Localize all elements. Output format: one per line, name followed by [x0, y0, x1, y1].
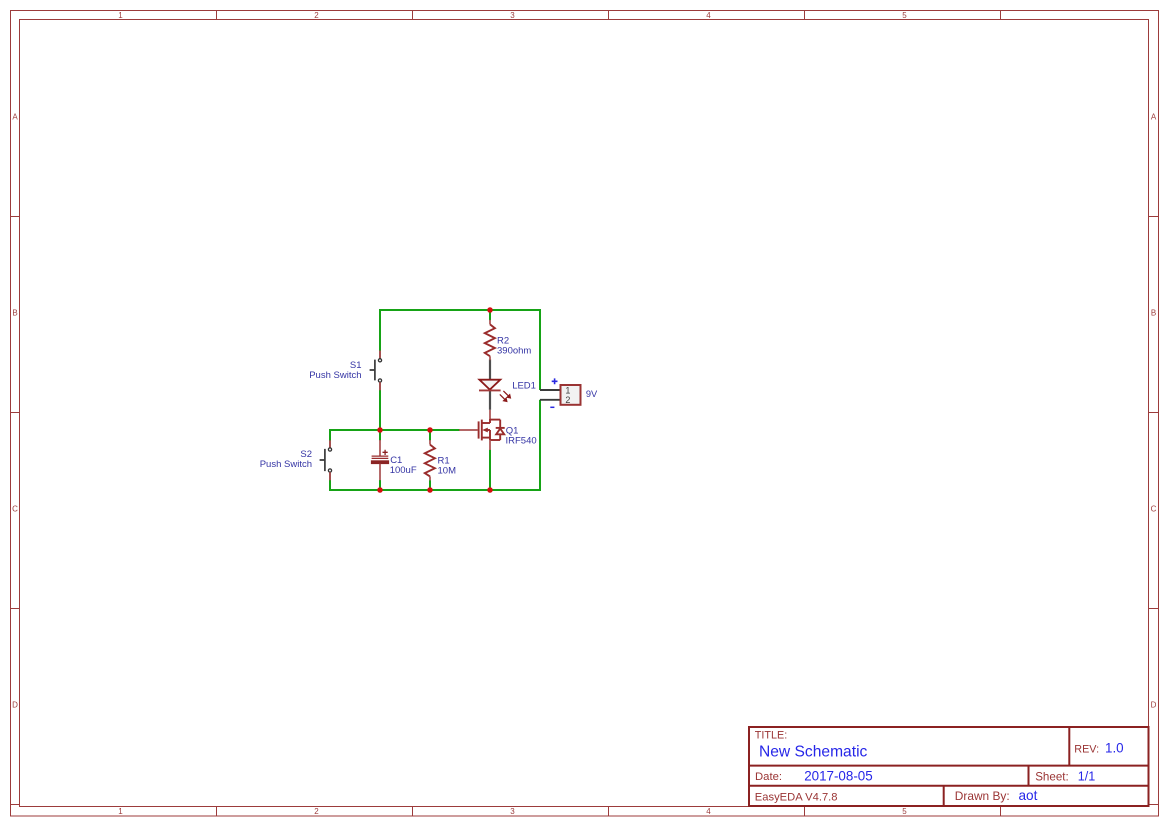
- top plate (outlined): [372, 456, 389, 458]
- svg-text:Push Switch: Push Switch: [309, 370, 361, 381]
- resistor R1: [425, 440, 435, 480]
- label S2: [260, 449, 312, 470]
- plus sign: [383, 450, 388, 455]
- svg-text:5: 5: [902, 807, 907, 816]
- title block REV divider: [1068, 727, 1070, 766]
- wire left vertical to S1 top: [379, 309, 381, 351]
- S1 bottom pin: [379, 382, 381, 390]
- wire bottom rail: [330, 489, 541, 491]
- bottom pin: [379, 464, 381, 481]
- svg-text:A: A: [1151, 113, 1157, 122]
- label Q1: [506, 425, 537, 446]
- svg-text:5: 5: [902, 11, 907, 20]
- svg-text:TITLE:: TITLE:: [755, 730, 787, 742]
- wire Q1 source to bottom rail: [489, 450, 491, 490]
- body diode cathode bar: [496, 427, 505, 429]
- bottom plate (filled): [371, 461, 389, 464]
- svg-text:C: C: [1151, 505, 1157, 514]
- wire R2 top stub: [489, 310, 491, 320]
- svg-text:2: 2: [314, 11, 319, 20]
- svg-text:D: D: [12, 701, 18, 710]
- svg-text:New Schematic: New Schematic: [759, 743, 868, 760]
- source vertical: [489, 430, 491, 440]
- svg-text:D: D: [1151, 701, 1157, 710]
- title block outline: [749, 727, 1149, 806]
- svg-text:3: 3: [510, 807, 515, 816]
- svg-text:9V: 9V: [586, 389, 598, 399]
- S1 bottom contact: [378, 379, 381, 382]
- top pin: [379, 440, 381, 456]
- label S1: [309, 360, 361, 381]
- wire S1 bottom to gate rail: [379, 390, 381, 430]
- channel bar: [481, 420, 483, 441]
- title block Sheet divider: [1028, 766, 1030, 786]
- svg-text:100uF: 100uF: [390, 465, 417, 476]
- source pin: [489, 440, 491, 450]
- switch S2: [320, 440, 332, 480]
- S1 top contact: [378, 359, 381, 362]
- drain pin: [489, 410, 491, 420]
- body diode vertical bottom: [499, 434, 501, 440]
- drain-diode top link: [490, 419, 500, 421]
- title block row divider 2: [749, 785, 1149, 787]
- battery connector P1 9V: [540, 378, 581, 407]
- battery minus mark: [550, 406, 554, 408]
- top stub: [482, 422, 490, 424]
- svg-text:B: B: [12, 309, 17, 318]
- svg-text:Date:: Date:: [755, 771, 782, 783]
- junction node bottom rail / Q1 source: [487, 487, 493, 493]
- wire right vertical to battery pin1: [539, 309, 541, 390]
- title block row divider 1: [749, 765, 1149, 767]
- svg-text:2: 2: [565, 395, 570, 405]
- title block DrawnBy divider: [943, 786, 945, 806]
- wire C1 bottom stub: [379, 480, 381, 490]
- svg-text:EasyEDA V4.7.8: EasyEDA V4.7.8: [755, 792, 838, 804]
- junction node gate rail / R1: [427, 427, 433, 433]
- wire gate rail: [330, 429, 460, 431]
- svg-text:1: 1: [118, 807, 123, 816]
- svg-text:4: 4: [706, 807, 711, 816]
- bottom stub: [482, 437, 490, 439]
- led cathode bar: [479, 389, 501, 391]
- S2 bottom pin: [329, 472, 331, 480]
- svg-text:1.0: 1.0: [1105, 741, 1124, 756]
- S2 top contact: [328, 448, 331, 451]
- label R1: [438, 455, 457, 476]
- battery body: [561, 385, 581, 405]
- label C1: [390, 455, 417, 476]
- gate bar: [478, 421, 480, 438]
- wire LED to Q1 drain (gray): [489, 391, 491, 410]
- svg-text:1: 1: [118, 11, 123, 20]
- svg-text:Drawn By:: Drawn By:: [955, 789, 1010, 803]
- battery pin2 lead: [540, 399, 560, 401]
- junction node bottom rail / C1: [377, 487, 383, 493]
- wire R1 bottom stub: [429, 480, 431, 490]
- wire battery pin2 down right side: [539, 400, 541, 490]
- wire S2 top stub: [329, 429, 331, 441]
- wire S2 bottom stub: [329, 480, 331, 491]
- battery plus mark: [552, 378, 558, 384]
- wire R1 top stub: [429, 430, 431, 441]
- svg-text:aot: aot: [1019, 788, 1038, 803]
- transistor Q1 (IRF540 N-MOSFET): [459, 410, 505, 450]
- svg-text:C: C: [12, 505, 18, 514]
- battery pin1 lead: [540, 389, 560, 391]
- gate pin: [459, 429, 478, 431]
- led emission arrows: [500, 391, 511, 402]
- junction node gate rail / S1-C1: [377, 427, 383, 433]
- svg-text:LED1: LED1: [512, 381, 536, 392]
- capacitor C1: [371, 440, 389, 480]
- body diode vertical top: [499, 420, 501, 428]
- svg-text:IRF540: IRF540: [506, 435, 537, 446]
- S2 lever: [320, 449, 325, 471]
- Q1 channel arrow: [482, 428, 488, 433]
- switch S1: [370, 351, 382, 391]
- svg-text:B: B: [1151, 309, 1156, 318]
- junction node top rail / R2: [487, 307, 493, 313]
- S1 lever: [370, 360, 375, 381]
- LED1: [479, 380, 510, 402]
- middle stub / arrow line: [485, 429, 490, 431]
- source-diode bottom link: [490, 439, 500, 441]
- svg-text:Push Switch: Push Switch: [260, 459, 312, 470]
- junction node bottom rail / R1: [427, 487, 433, 493]
- resistor R2: [485, 320, 495, 360]
- wire top rail: [380, 309, 540, 311]
- label R2: [497, 335, 531, 356]
- svg-text:Sheet:: Sheet:: [1035, 771, 1069, 784]
- svg-text:10M: 10M: [438, 465, 457, 476]
- svg-text:2017-08-05: 2017-08-05: [804, 769, 873, 784]
- svg-text:1: 1: [565, 386, 570, 396]
- wire R2 to LED (gray): [489, 359, 491, 379]
- svg-text:REV:: REV:: [1074, 743, 1099, 755]
- body diode triangle: [496, 429, 504, 435]
- svg-text:4: 4: [706, 11, 711, 20]
- svg-text:A: A: [12, 113, 18, 122]
- svg-text:1/1: 1/1: [1078, 770, 1096, 784]
- S1 top pin: [379, 351, 381, 359]
- S2 bottom contact: [328, 469, 331, 472]
- wire C1 top stub: [379, 430, 381, 441]
- S2 top pin: [329, 440, 331, 448]
- led triangle: [479, 380, 500, 390]
- svg-text:3: 3: [510, 11, 515, 20]
- svg-text:390ohm: 390ohm: [497, 345, 531, 356]
- svg-text:2: 2: [314, 807, 319, 816]
